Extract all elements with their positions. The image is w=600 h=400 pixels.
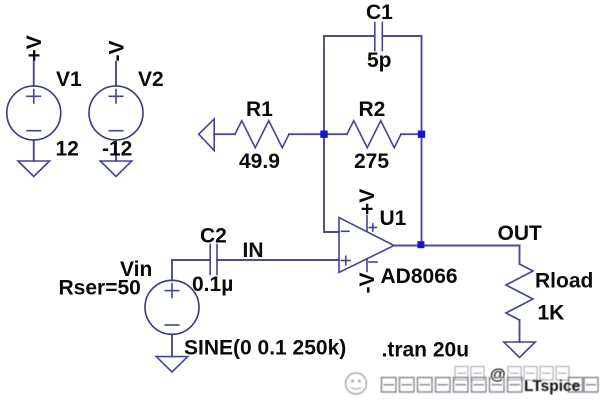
svg-text:V2: V2 <box>138 68 164 91</box>
svg-text:+V: +V <box>356 189 379 215</box>
svg-text:-V: -V <box>106 41 129 62</box>
svg-text:275: 275 <box>354 150 389 173</box>
svg-text:Rser=50: Rser=50 <box>59 277 141 300</box>
svg-text:C2: C2 <box>200 225 227 248</box>
svg-text:12: 12 <box>56 138 79 161</box>
svg-text:+V: +V <box>23 35 46 61</box>
svg-text:R2: R2 <box>359 98 386 121</box>
svg-text:5p: 5p <box>367 49 392 72</box>
svg-text:@: @ <box>490 367 506 384</box>
svg-text:V1: V1 <box>56 68 82 91</box>
svg-text:.tran 20u: .tran 20u <box>382 339 470 362</box>
svg-text:1K: 1K <box>538 302 565 325</box>
svg-text:OUT: OUT <box>498 222 543 245</box>
svg-text:AD8066: AD8066 <box>381 265 458 288</box>
svg-text:U1: U1 <box>380 207 407 230</box>
svg-text:LTspice: LTspice <box>524 378 581 395</box>
svg-text:SINE(0 0.1 250k): SINE(0 0.1 250k) <box>184 337 346 360</box>
svg-text:0.1µ: 0.1µ <box>192 273 233 296</box>
svg-text:C1: C1 <box>366 1 393 24</box>
svg-text:Rload: Rload <box>535 270 593 293</box>
svg-text:49.9: 49.9 <box>239 150 280 173</box>
svg-text:IN: IN <box>243 239 264 262</box>
svg-text:R1: R1 <box>246 98 273 121</box>
svg-text:-V: -V <box>356 273 379 294</box>
svg-text:-12: -12 <box>102 138 132 161</box>
